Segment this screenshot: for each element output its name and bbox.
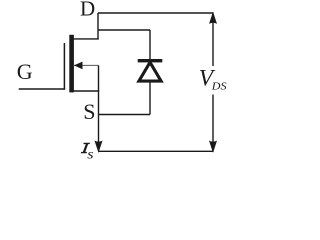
wire source vertical down through S node to Is arrow — [98, 65, 100, 149]
wire drain vertical from D down to MOSFET drain — [97, 13, 99, 40]
arrowhead VDS top pointing up — [209, 12, 217, 24]
diode anode wire vertical bottom — [149, 81, 151, 115]
svg-text:S: S — [83, 99, 95, 124]
svg-text:G: G — [17, 59, 33, 84]
label Is (source current) — [81, 143, 90, 154]
wire source connection horizontal from channel bar — [73, 90, 99, 92]
arrowhead Is current arrow pointing down — [95, 141, 103, 153]
wire gate horizontal from G to gate line — [19, 88, 65, 90]
MOSFET body arrow line to source node — [74, 64, 99, 66]
wire horizontal from drain vertical to diode cathode — [98, 29, 150, 31]
transistor MOSFET channel bar — [69, 35, 74, 93]
diode cathode wire vertical top — [149, 30, 151, 60]
arrowhead VDS bottom pointing down — [209, 141, 217, 153]
MOSFET arrowhead pointing left into channel — [74, 62, 83, 70]
VDS measurement line vertical (upper segment) — [212, 14, 214, 66]
svg-text:DS: DS — [211, 81, 227, 92]
VDS measurement line vertical (lower segment) — [212, 95, 214, 151]
wire top horizontal from drain node to VDS arrow — [98, 12, 214, 14]
wire bottom horizontal from Is arrow to VDS bottom arrow — [99, 150, 214, 152]
svg-text:D: D — [80, 0, 95, 21]
diode D1 cathode bar — [138, 59, 163, 62]
svg-text:s: s — [87, 148, 94, 162]
wire drain connection horizontal into MOSFET channel bar — [73, 38, 99, 40]
wire S-level horizontal from source node to diode anode — [99, 114, 151, 116]
transistor MOSFET gate line — [63, 43, 65, 90]
diode D1 triangle (anode, pointing up) — [139, 62, 161, 81]
